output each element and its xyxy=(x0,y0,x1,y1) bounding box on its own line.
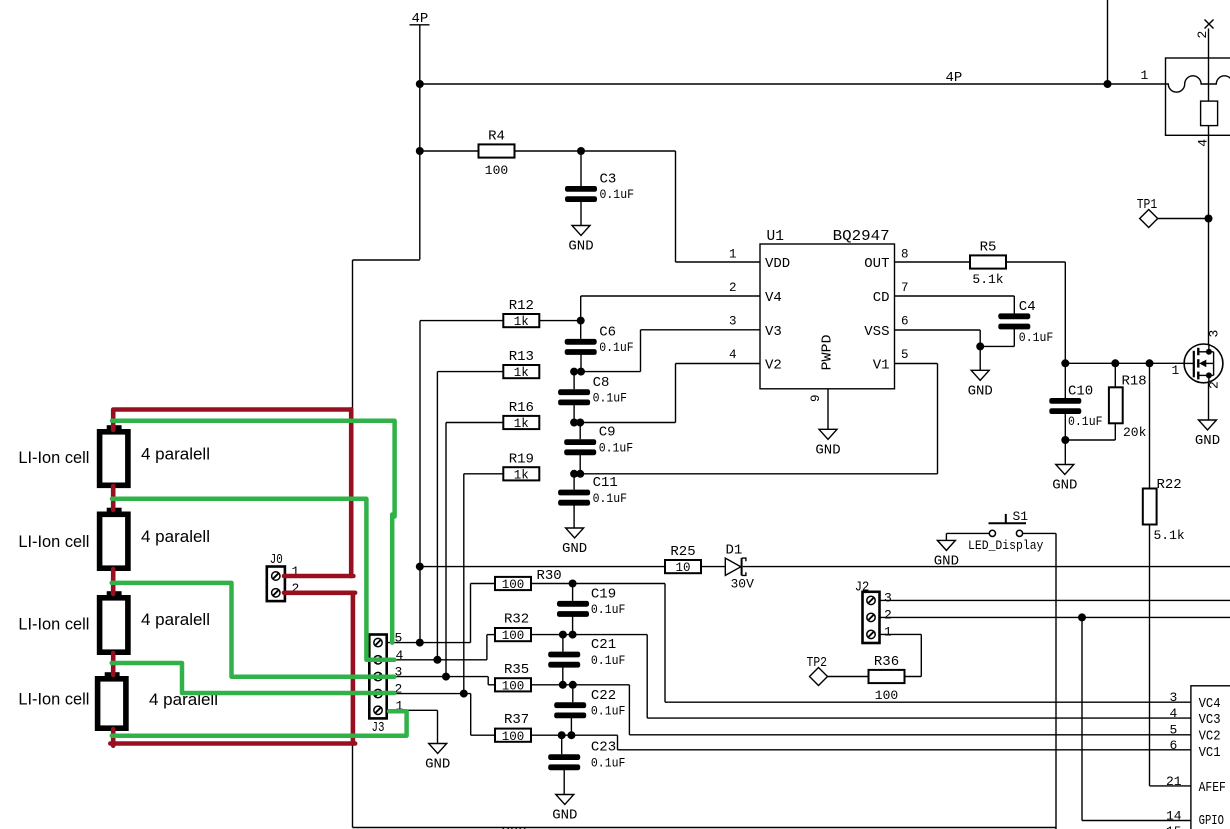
svg-text:VDD: VDD xyxy=(765,256,790,272)
wire AFEF pin21 row xyxy=(1150,785,1191,787)
wire R16 net down to J3 pin3 xyxy=(445,423,447,677)
wire D1 cathode to right edge xyxy=(743,566,1230,568)
svg-text:C11: C11 xyxy=(593,475,618,491)
wire TP1 to main vertical xyxy=(1158,218,1209,220)
wire C11 bottom lead xyxy=(573,505,575,528)
wire R30 to C19 node xyxy=(531,583,573,585)
junction TP1 node xyxy=(1205,215,1213,223)
wire CD row xyxy=(895,295,1015,297)
resistor R16 xyxy=(503,400,539,431)
svg-text:0.1uF: 0.1uF xyxy=(599,441,634,455)
battery LI-Ion cell 4 with labels xyxy=(18,672,218,728)
junction R4 row left xyxy=(416,147,424,155)
svg-text:GPIO: GPIO xyxy=(1199,813,1224,829)
svg-text:LI-Ion cell: LI-Ion cell xyxy=(18,690,89,709)
wire V1 row right xyxy=(895,363,938,365)
svg-text:R25: R25 xyxy=(670,544,695,560)
capacitor C22 xyxy=(554,688,625,719)
wire J3 pin5 row xyxy=(387,642,471,644)
svg-text:VSS: VSS xyxy=(864,324,889,340)
capacitor C10 xyxy=(1049,384,1102,430)
wire R12 net down to J3 pin5 xyxy=(419,321,421,643)
svg-text:GND: GND xyxy=(552,808,577,824)
svg-text:2: 2 xyxy=(884,608,892,623)
wire C9 bottom lead xyxy=(579,455,581,474)
svg-text:6: 6 xyxy=(901,315,909,329)
resistor R5 xyxy=(970,240,1006,288)
svg-text:D1: D1 xyxy=(726,543,743,559)
resistor R25 xyxy=(665,544,701,575)
svg-text:U1: U1 xyxy=(767,229,784,245)
wire 4P stub down from label xyxy=(419,25,421,260)
wire V1 riser right xyxy=(937,364,939,474)
wire fuse pin4 down to TP1 node xyxy=(1208,135,1210,346)
op-amp U1 body BQ2947 xyxy=(760,229,895,389)
wire R35 to C21 bottom node xyxy=(531,684,573,686)
transistor Q1 mosfet xyxy=(1184,344,1223,383)
resistor R36 xyxy=(869,654,905,703)
svg-text:2: 2 xyxy=(1195,31,1210,39)
svg-text:GND: GND xyxy=(1195,433,1220,449)
wire R32 left xyxy=(487,634,495,636)
svg-text:AFEF: AFEF xyxy=(1199,780,1226,796)
wire red stub cell3-cell4 xyxy=(111,653,116,675)
pin number 7 U1 xyxy=(901,281,909,295)
svg-text:1: 1 xyxy=(729,247,737,261)
svg-text:4: 4 xyxy=(1170,706,1178,721)
wire fuse pin2 from X to box xyxy=(1208,29,1210,59)
ground at S1 xyxy=(934,540,959,569)
wire C19 top lead xyxy=(572,584,574,601)
wire VC3 feed xyxy=(573,634,648,636)
wire VC1 feed xyxy=(571,734,617,736)
svg-text:1k: 1k xyxy=(514,417,529,431)
label R22 xyxy=(1157,477,1182,493)
connector J2 xyxy=(855,580,892,644)
capacitor C23 xyxy=(548,740,625,771)
svg-text:TP1: TP1 xyxy=(1137,197,1158,213)
wire 4P horizontal rail xyxy=(420,83,1166,85)
svg-text:VC4: VC4 xyxy=(1199,696,1221,712)
svg-text:GND: GND xyxy=(1052,478,1077,494)
pin number 2 of fuse rotated xyxy=(1195,31,1210,39)
svg-text:R5: R5 xyxy=(980,240,997,256)
wire C4 bottom lead xyxy=(1013,329,1015,346)
resistor R12 xyxy=(503,298,539,329)
wire R16 left xyxy=(446,422,503,424)
resistor R22 body xyxy=(1143,489,1157,525)
wire R18 bottom to C10 node xyxy=(1065,439,1115,441)
pin number 6 U1 xyxy=(901,315,909,329)
svg-text:CD: CD xyxy=(873,290,890,306)
svg-text:2: 2 xyxy=(729,281,737,295)
wire red battery plus top xyxy=(113,410,351,431)
pin number 6 VC1 xyxy=(1170,738,1178,753)
wire R13 net down to J3 pin4 xyxy=(436,372,438,660)
wire R30 net from J3 pin5 xyxy=(470,584,472,643)
wire red stub cell2-cell3 xyxy=(111,569,116,594)
svg-text:R16: R16 xyxy=(509,400,534,416)
svg-text:4 paralell: 4 paralell xyxy=(141,610,210,629)
junction C10 bottom xyxy=(1061,436,1069,444)
wire R36 right xyxy=(904,676,921,678)
wire VC2 feed xyxy=(573,684,630,686)
wire R12 right xyxy=(540,320,581,322)
junction C19 bottom xyxy=(569,631,577,639)
svg-text:C10: C10 xyxy=(1068,384,1093,400)
svg-text:3: 3 xyxy=(1207,330,1222,338)
wire green cell1-cell2 tap to J3 pin4 xyxy=(112,499,394,660)
svg-text:4 paralell: 4 paralell xyxy=(141,445,210,464)
svg-text:0.1uF: 0.1uF xyxy=(591,603,626,617)
svg-text:C22: C22 xyxy=(591,688,616,704)
wire to U1 pin1 VDD xyxy=(676,261,761,263)
wire CD corner down to C4 xyxy=(1013,296,1015,313)
wire fuse pin1 drop from top edge xyxy=(1107,0,1109,84)
junction GPIO feed xyxy=(1078,613,1086,621)
capacitor C8 xyxy=(558,375,627,406)
svg-text:21: 21 xyxy=(1166,774,1182,789)
wire C9 top lead xyxy=(579,423,581,440)
svg-text:R37: R37 xyxy=(504,712,529,728)
ground below PWPD xyxy=(815,429,840,458)
pin number 3 U1 xyxy=(729,315,737,329)
connector J0 xyxy=(267,552,300,601)
wire C3 top lead xyxy=(580,151,582,186)
wire VC1 row xyxy=(618,749,1191,751)
wire R12 left xyxy=(420,320,503,322)
wire R25 row left xyxy=(420,566,665,568)
svg-text:5: 5 xyxy=(1170,723,1178,738)
fuse F1 box outline xyxy=(1166,58,1230,135)
junction C9 bottom left xyxy=(570,470,578,478)
pin number 9 U1 rotated xyxy=(809,394,823,402)
wire red battery minus bottom xyxy=(110,741,355,746)
capacitor C11 xyxy=(558,475,627,506)
svg-text:4: 4 xyxy=(1195,139,1210,147)
svg-text:LI-Ion cell: LI-Ion cell xyxy=(18,615,89,634)
wire VC2 riser down xyxy=(628,685,630,735)
pin number 1 U1 xyxy=(729,247,737,261)
wire R32 net riser xyxy=(486,635,488,660)
wire J3 pin2 row xyxy=(387,693,471,695)
wire red pack minus drop xyxy=(351,593,356,744)
wire J2 pin3 row xyxy=(880,599,1230,601)
resistor R30 xyxy=(495,568,562,592)
svg-text:V4: V4 xyxy=(765,290,782,306)
wire VC4 row xyxy=(665,701,1191,703)
svg-text:V3: V3 xyxy=(765,324,782,340)
svg-text:V2: V2 xyxy=(765,358,782,374)
svg-text:J0: J0 xyxy=(270,552,283,568)
wire green cell2-cell3 tap to J3 pin3 xyxy=(112,583,395,677)
svg-text:14: 14 xyxy=(1166,809,1182,824)
junction 4P at x1107 xyxy=(1104,80,1112,88)
pin number 4 of fuse rotated xyxy=(1195,139,1210,147)
wire R37 left xyxy=(471,734,495,736)
wire C3 node to corner xyxy=(581,150,676,152)
diode D1 zener 30V xyxy=(725,543,754,592)
ground below C10 xyxy=(1052,465,1077,494)
junction gate row R18 xyxy=(1111,359,1119,367)
pin number 15 partial xyxy=(1166,824,1182,829)
wire R35 left xyxy=(488,684,495,686)
svg-text:1: 1 xyxy=(1172,363,1180,378)
wire R13 node to riser xyxy=(581,371,641,373)
pin number 1 of fuse F1 xyxy=(1141,68,1149,83)
wire VSS down xyxy=(979,330,981,370)
wire red J0 pin2 xyxy=(284,590,355,595)
svg-text:0.1uF: 0.1uF xyxy=(600,188,635,202)
junction C6 bottom left xyxy=(570,368,578,376)
svg-text:LI-Ion cell: LI-Ion cell xyxy=(18,448,89,467)
wire S1 left down to gnd xyxy=(945,533,947,540)
wire corner down to U1 VDD xyxy=(675,151,677,262)
svg-text:0.1uF: 0.1uF xyxy=(593,492,628,506)
net label 4P on rail xyxy=(946,70,963,86)
switch S1 LED_Display xyxy=(946,509,1056,553)
wire J2 pin1 row xyxy=(880,633,922,635)
wire VC2 row xyxy=(629,734,1191,736)
svg-text:R18: R18 xyxy=(1122,373,1147,389)
wire green cell3-cell4 tap to J3 pin2 xyxy=(112,663,395,693)
test point TP1 xyxy=(1137,197,1158,228)
svg-text:GND: GND xyxy=(968,383,993,399)
svg-text:3: 3 xyxy=(729,315,737,329)
wire V3 row upper xyxy=(641,329,761,331)
junction C21 top xyxy=(559,631,567,639)
junction C3 top xyxy=(577,147,585,155)
svg-text:5.1k: 5.1k xyxy=(972,272,1003,287)
svg-text:C6: C6 xyxy=(599,324,616,340)
svg-text:J2: J2 xyxy=(855,580,870,596)
wire J3 pin3 row xyxy=(387,676,489,678)
wire battery plus vertical xyxy=(352,260,354,410)
wire R30 left xyxy=(471,583,496,585)
wire C8 top lead xyxy=(573,372,575,390)
wire C10 top lead xyxy=(1064,363,1066,398)
ground below J3 pin1 xyxy=(425,744,450,773)
net label 4P tick xyxy=(410,24,430,26)
label R18 xyxy=(1122,373,1147,389)
svg-text:R12: R12 xyxy=(509,298,534,314)
svg-text:OUT: OUT xyxy=(864,256,889,272)
wire mosfet source down xyxy=(1208,383,1210,420)
resistor R32 xyxy=(495,612,531,644)
net label 4P top xyxy=(412,11,429,27)
pin number 5 U1 xyxy=(901,348,909,362)
svg-text:3: 3 xyxy=(1170,690,1178,705)
junction C23 top xyxy=(558,731,566,739)
wire V2 row upper xyxy=(676,363,761,365)
svg-text:15: 15 xyxy=(1166,824,1182,829)
pin number 3 VC4 xyxy=(1170,690,1178,705)
wire bottom rail xyxy=(353,827,1057,829)
wire R19 node to riser xyxy=(580,473,937,475)
wire V3 riser xyxy=(640,330,642,372)
svg-text:R19: R19 xyxy=(509,451,534,467)
junction 4P at x420 xyxy=(416,80,424,88)
wire U1 PWPD pin9 down xyxy=(827,389,829,430)
junction J3 pin2 xyxy=(460,690,468,698)
svg-text:5.1k: 5.1k xyxy=(1154,528,1185,543)
wire C4 bottom to VSS node xyxy=(980,345,1014,347)
svg-text:1k: 1k xyxy=(514,468,529,482)
svg-text:C4: C4 xyxy=(1019,299,1036,315)
svg-text:0.1uF: 0.1uF xyxy=(599,341,634,355)
junction C8 bottom right xyxy=(576,419,584,427)
svg-text:1k: 1k xyxy=(514,315,529,329)
svg-text:R35: R35 xyxy=(504,662,529,678)
svg-text:PWPD: PWPD xyxy=(820,335,836,371)
junction C6 bottom right xyxy=(577,368,585,376)
resistor R18 body xyxy=(1109,387,1123,423)
junction VSS-C4 node xyxy=(976,342,984,350)
junction J3 pin5 xyxy=(416,639,424,647)
svg-text:5: 5 xyxy=(901,348,909,362)
fuse wavy element xyxy=(1166,76,1230,92)
wire battery minus down xyxy=(352,744,354,828)
wire R5 corner down xyxy=(1064,262,1066,363)
ground below C23 xyxy=(552,795,577,824)
svg-text:C23: C23 xyxy=(591,740,616,756)
junction J3 pin4 xyxy=(433,656,441,664)
wire VC1 riser down xyxy=(617,735,619,750)
svg-text:0.1uF: 0.1uF xyxy=(1068,415,1103,429)
wire C3 bottom lead xyxy=(580,201,582,226)
svg-text:7: 7 xyxy=(901,281,909,295)
junction C8 bottom left xyxy=(570,419,578,427)
wire VSS row xyxy=(895,329,981,331)
wire GPIO pin14 row xyxy=(1082,820,1191,822)
IC U2 analog front end xyxy=(1191,686,1230,829)
svg-text:BQ2947: BQ2947 xyxy=(833,229,890,245)
ground below mosfet xyxy=(1195,420,1220,449)
svg-text:VC2: VC2 xyxy=(1199,729,1221,745)
capacitor C19 xyxy=(557,586,625,617)
svg-text:C9: C9 xyxy=(599,425,616,441)
svg-text:R36: R36 xyxy=(874,654,899,670)
resistor R35 xyxy=(495,662,531,694)
svg-text:8: 8 xyxy=(901,247,909,261)
wire R13 left xyxy=(437,371,502,373)
ground below C11 xyxy=(562,528,587,557)
junction gate row R22 xyxy=(1146,359,1154,367)
pin number 4 VC3 xyxy=(1170,706,1178,721)
svg-text:1k: 1k xyxy=(514,366,529,380)
battery LI-Ion cell 2 with labels xyxy=(18,508,210,569)
svg-text:GND: GND xyxy=(568,239,593,255)
junction C21 bottom xyxy=(559,681,567,689)
wire red stub cell4 bottom xyxy=(111,729,116,746)
wire C22 bottom lead xyxy=(570,718,572,735)
svg-text:20k: 20k xyxy=(1123,425,1147,440)
pin number 2 mosfet source rotated xyxy=(1207,381,1222,389)
wire R37 to C22 bottom node xyxy=(531,734,571,736)
svg-text:100: 100 xyxy=(502,629,525,643)
wire green cell1 top to J3 pin5 xyxy=(112,421,395,643)
svg-text:GND: GND xyxy=(562,541,587,557)
svg-text:4: 4 xyxy=(396,648,404,663)
wire C6 node up to V4 xyxy=(580,296,582,321)
junction gate row C10 xyxy=(1061,359,1069,367)
junction J3 pin3 xyxy=(442,673,450,681)
wire VC4 feed xyxy=(573,583,665,585)
wire C6 top lead xyxy=(580,321,582,339)
svg-text:R32: R32 xyxy=(504,612,529,628)
wire R22 bottom to AFEF corner xyxy=(1149,524,1151,786)
svg-text:0.1uF: 0.1uF xyxy=(1019,331,1054,345)
battery LI-Ion cell 1 with labels xyxy=(18,425,210,485)
wire R35 net riser xyxy=(487,677,489,685)
svg-text:100: 100 xyxy=(502,578,525,592)
wire C21 top lead xyxy=(562,635,564,652)
wire R16 node to riser xyxy=(580,422,675,424)
wire through fuse box xyxy=(1208,58,1210,101)
resistor R4 xyxy=(479,129,515,179)
wire TP2 to R36 xyxy=(828,676,869,678)
wire V2 riser xyxy=(675,364,677,423)
svg-text:GND: GND xyxy=(425,757,450,773)
pin number 5 VC2 xyxy=(1170,723,1178,738)
wire VC4 riser down xyxy=(664,584,666,703)
wire C23 top lead xyxy=(561,735,563,754)
svg-text:100: 100 xyxy=(502,730,525,744)
svg-text:10: 10 xyxy=(675,561,690,575)
wire R4 to C3 node xyxy=(515,150,582,152)
pin number 4 U1 xyxy=(729,348,737,362)
svg-text:C3: C3 xyxy=(600,172,617,188)
junction C19 top xyxy=(569,580,577,588)
svg-text:V1: V1 xyxy=(873,358,890,374)
wire OUT to R5 xyxy=(895,261,971,263)
svg-text:GND: GND xyxy=(934,553,959,569)
pin number 21 AFEF xyxy=(1166,774,1182,789)
svg-text:0.1uF: 0.1uF xyxy=(591,654,626,668)
wire R18 bottom lead xyxy=(1114,423,1116,440)
wire J3 pin4 row xyxy=(387,659,487,661)
wire J3 pin1 to ground xyxy=(437,710,439,743)
junction C9 bottom right xyxy=(576,470,584,478)
ground below C3 xyxy=(568,226,593,255)
svg-text:100: 100 xyxy=(875,688,898,703)
wire J3 pin1 row xyxy=(387,709,438,711)
pin number 14 GPIO xyxy=(1166,809,1182,824)
svg-text:S1: S1 xyxy=(1013,509,1029,524)
svg-text:0.1uF: 0.1uF xyxy=(591,705,626,719)
svg-text:30V: 30V xyxy=(731,577,755,592)
wire red J0 pin1 xyxy=(284,574,353,579)
junction C22 bottom xyxy=(567,731,575,739)
wire green cell4 bottom to J3 pin1 xyxy=(112,711,407,735)
svg-text:VC3: VC3 xyxy=(1199,712,1221,728)
connector J3 xyxy=(369,631,403,737)
value 5.1k of R22 xyxy=(1154,528,1185,543)
svg-text:GND: GND xyxy=(815,442,840,458)
wire C11 top lead xyxy=(573,474,575,490)
wire C22 top lead xyxy=(572,685,574,703)
svg-text:4 paralell: 4 paralell xyxy=(141,527,210,546)
wire J2 pin1 down to R36 xyxy=(920,634,922,676)
wire R32 to C19 bottom node xyxy=(531,634,573,636)
svg-text:LI-Ion cell: LI-Ion cell xyxy=(18,532,89,551)
svg-text:LED_Display: LED_Display xyxy=(968,539,1044,553)
test point TP2 xyxy=(807,655,828,686)
svg-text:1: 1 xyxy=(1141,68,1149,83)
wire fuse rect to box bottom xyxy=(1208,126,1210,136)
wire C8 bottom lead xyxy=(573,405,575,423)
wire GPIO riser down xyxy=(1081,617,1083,820)
